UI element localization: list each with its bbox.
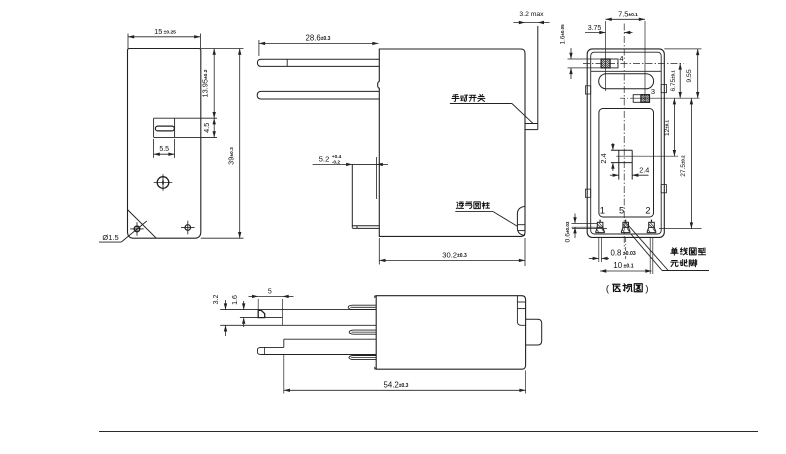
pin1 stem extension xyxy=(598,237,600,262)
view2 pin top blade xyxy=(257,59,379,66)
manual switch lever xyxy=(537,26,539,130)
dimension 15 +-0.25 xyxy=(127,34,129,49)
centerline pin4 row xyxy=(583,62,684,64)
blade1 band line C xyxy=(220,324,376,326)
view3 outer outline xyxy=(587,49,664,238)
view4 body outline xyxy=(376,296,525,370)
svg-text:5: 5 xyxy=(619,205,624,215)
dimension 27.5 +-0.2 xyxy=(690,98,692,228)
svg-text:5: 5 xyxy=(268,289,272,296)
dimension 30.2 +-0.3 xyxy=(378,238,380,265)
view3 top slot xyxy=(599,74,654,89)
pin5 centerline below xyxy=(625,238,627,259)
view4 block top edge xyxy=(284,338,376,340)
svg-text:5.2: 5.2 xyxy=(319,155,330,164)
svg-text:): ) xyxy=(645,284,648,295)
dimension 13.95 +-0.2 xyxy=(201,48,244,50)
blade1 band line B xyxy=(240,317,283,319)
dimension 1.6 +-0.05 pin4 xyxy=(568,58,602,60)
view1 slot xyxy=(155,126,174,131)
svg-text:4.5: 4.5 xyxy=(202,123,211,133)
extension top face right xyxy=(664,48,701,50)
dimension 3.2 view4 xyxy=(225,300,227,310)
svg-text:+0.4: +0.4 xyxy=(332,154,342,160)
dimension 5 view4 xyxy=(257,299,259,310)
view2 pin lower blade xyxy=(257,91,379,99)
dimension 39 +-0.3 xyxy=(201,237,244,239)
view3 cavity xyxy=(599,109,654,218)
label single coil type no pin (CJK) xyxy=(671,248,678,255)
view3 side tab right upper xyxy=(661,85,666,93)
centerline pin3 row xyxy=(620,97,633,99)
label manual switch (CJK) xyxy=(452,95,459,102)
view3 inner outline xyxy=(591,52,662,234)
svg-text:3.75: 3.75 xyxy=(588,25,602,32)
dimension 7.5 +-0.1 xyxy=(605,21,607,91)
view4 blade3 stub xyxy=(349,356,376,360)
vent cylinder feature xyxy=(517,206,525,235)
pin 4 xyxy=(601,59,618,68)
dimension 54.2 +-0.3 xyxy=(283,355,285,394)
bottom rule xyxy=(99,431,758,433)
svg-text:1.6: 1.6 xyxy=(232,295,239,305)
leader O1.5 xyxy=(99,241,121,243)
dimension 28.6 +-0.3 xyxy=(258,40,260,56)
dimension 6.75 +-0.1 xyxy=(679,63,681,98)
svg-text:Ø1.5: Ø1.5 xyxy=(102,233,118,242)
blade1 band line A xyxy=(220,309,376,311)
svg-text:2.4: 2.4 xyxy=(639,166,649,175)
dimension 0.6 +-0.03 xyxy=(572,223,598,225)
dimension 2.4 horizontal xyxy=(610,174,619,176)
dimension 3.75 xyxy=(585,32,606,34)
view4 blade2 stub xyxy=(349,330,376,334)
dimension 10 +-0.1 xyxy=(600,270,651,272)
view4 corner nub top-left xyxy=(375,296,376,298)
view4 long pin xyxy=(258,347,377,354)
extension center square midline xyxy=(616,155,678,157)
svg-text:5.5: 5.5 xyxy=(159,146,169,153)
svg-text:4: 4 xyxy=(619,54,623,63)
dimension 1.6 view4 xyxy=(243,301,245,310)
leader single-coil note xyxy=(626,223,668,271)
view3 side tab left lower xyxy=(585,189,590,197)
view4 corner nub bottom-left xyxy=(375,367,376,369)
view3 compartment line xyxy=(591,70,662,72)
svg-text:9.55: 9.55 xyxy=(686,69,693,82)
view3 side tab right lower xyxy=(661,185,666,193)
view1 slot band xyxy=(154,117,217,119)
svg-text:3.2: 3.2 xyxy=(213,295,220,305)
seating plane extensions xyxy=(659,228,702,230)
view4 vent bump xyxy=(526,319,542,345)
svg-text:2.4: 2.4 xyxy=(599,153,608,163)
bottom-left flange xyxy=(351,164,353,228)
svg-text:1: 1 xyxy=(600,205,605,215)
view1 body outline xyxy=(128,49,201,239)
dimension 2.4 vertical xyxy=(612,143,614,150)
dimension 5.5 xyxy=(153,139,155,158)
blade1 section pentagon xyxy=(258,310,265,317)
pin2 stem extension xyxy=(649,237,651,274)
pin 1 section xyxy=(596,220,605,233)
chamfer corner line xyxy=(128,210,157,239)
pin 3 xyxy=(633,95,649,103)
view4 block left edge xyxy=(283,339,285,347)
dimension 5.2 +0.4 -0.2 xyxy=(313,163,353,165)
dimension 0.8 +-0.03 xyxy=(589,257,599,259)
view4 blade1 stub xyxy=(348,305,376,309)
center square xyxy=(611,149,632,151)
dimension 12 +-0.1 xyxy=(673,98,675,156)
dimension 9.55 xyxy=(697,49,699,98)
svg-text:-0.2: -0.2 xyxy=(332,159,341,165)
pin 2 section xyxy=(647,220,656,233)
svg-text:2: 2 xyxy=(645,205,650,215)
crosshair target center xyxy=(154,174,173,191)
view2 body outline xyxy=(378,49,525,236)
hole bottom-right xyxy=(181,221,195,235)
svg-text:3.2 max: 3.2 max xyxy=(519,11,544,18)
pin 5 section xyxy=(621,220,630,233)
dimension 3.2 max xyxy=(513,22,549,24)
dimension 4.5 xyxy=(213,118,216,124)
label vent cylinder (CJK) xyxy=(456,202,463,208)
centerline vertical xyxy=(623,24,625,250)
view4 top-right inner line xyxy=(517,296,525,326)
hole bottom-left xyxy=(130,222,144,236)
view3 side tab left upper xyxy=(585,86,590,94)
svg-text:3: 3 xyxy=(651,87,655,96)
